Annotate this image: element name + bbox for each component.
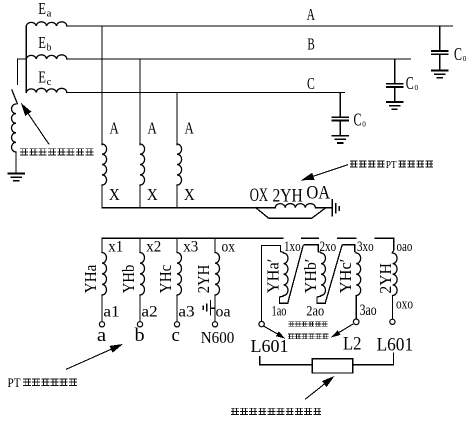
wire X bus: [102, 207, 275, 209]
svg-text:1ao: 1ao: [272, 304, 287, 320]
svg-text:L601: L601: [377, 335, 414, 355]
wire resistor bus: [260, 364, 394, 366]
svg-text:X: X: [184, 185, 195, 204]
svg-text:oxo: oxo: [396, 297, 413, 313]
svg-text:c: c: [47, 77, 52, 88]
wire lead oa: [214, 295, 216, 322]
wire oao corner: [392, 238, 393, 253]
wire L601 left drop: [259, 357, 261, 365]
annotation arrow damper: [306, 384, 325, 399]
winding Ea: [26, 22, 67, 26]
switch open: [12, 90, 18, 104]
terminal circle 1ao drop: [259, 321, 264, 326]
svg-text:x1: x1: [108, 239, 123, 256]
annotation arrow short zero seq: [313, 165, 347, 177]
svg-text:YHc: YHc: [156, 264, 175, 293]
PT primary winding 2: [140, 144, 145, 185]
svg-text:o: o: [415, 82, 419, 93]
wire oxo lead: [392, 296, 394, 319]
wire L601 right drop: [392, 353, 394, 365]
svg-text:1xo: 1xo: [284, 239, 301, 255]
wire to X bus 1: [101, 185, 103, 208]
wire neutral tap: [18, 59, 27, 85]
svg-text:b: b: [47, 43, 52, 54]
annotation arrow right to note: [339, 324, 353, 332]
svg-text:E: E: [38, 33, 46, 52]
wire delta diagonal 2: [325, 246, 342, 303]
svg-text:2YH: 2YH: [376, 263, 395, 294]
wire shelf 3xo: [342, 245, 357, 253]
wire tick x3: [176, 238, 178, 252]
wire secondary bus: [102, 237, 394, 239]
terminal circle oxo: [390, 319, 395, 324]
note arc coil out of service: [20, 149, 27, 155]
wire phase tap 2: [139, 59, 141, 145]
svg-text:PT: PT: [8, 376, 21, 390]
ground oa sideways: [203, 301, 215, 315]
terminal circle a3: [174, 322, 179, 327]
wire lead a3: [176, 295, 178, 322]
label 2xo: [319, 237, 337, 251]
PT primary winding 3: [177, 144, 182, 185]
winding YHa2: [284, 253, 289, 296]
note damper out of service: [231, 408, 238, 414]
arc suppression coil: [11, 104, 16, 152]
capacitor Co phase B: [394, 60, 396, 83]
wire phase A: [67, 25, 453, 27]
winding Eb: [26, 55, 67, 59]
svg-text:X: X: [147, 185, 158, 204]
svg-text:oao: oao: [397, 239, 413, 255]
wire phase B: [67, 58, 411, 60]
note connect to instrument line2: [288, 334, 293, 339]
capacitor Co phase A: [439, 27, 441, 50]
wire tick x2: [139, 238, 141, 252]
winding YHb2: [321, 253, 326, 296]
note connect to instrument line1: [289, 322, 294, 327]
svg-text:2YH: 2YH: [194, 265, 213, 294]
wire to X bus 3: [176, 185, 178, 208]
terminal circle oa: [212, 322, 217, 327]
ground arc coil: [8, 173, 24, 175]
svg-text:x3: x3: [183, 239, 198, 256]
svg-text:X: X: [109, 185, 120, 204]
wire tick ox: [214, 238, 216, 252]
winding YHc left: [177, 253, 182, 296]
svg-text:x2: x2: [146, 239, 161, 256]
wire phase tap 3: [176, 93, 178, 146]
wire delta diagonal 1: [288, 246, 303, 303]
winding YHc2: [356, 253, 361, 296]
svg-text:a3: a3: [178, 304, 195, 321]
svg-text:YHc′: YHc′: [336, 259, 355, 294]
svg-text:2ao: 2ao: [306, 304, 324, 320]
winding Ec: [26, 88, 67, 92]
terminal circle a1: [99, 322, 104, 327]
wire neutral bus: [25, 26, 27, 93]
wire 3ao lead: [355, 296, 357, 319]
wire phase C: [67, 92, 344, 94]
svg-text:OA: OA: [306, 183, 330, 204]
svg-text:3xo: 3xo: [357, 239, 374, 255]
ground zero seq sideways: [332, 200, 339, 216]
svg-text:oa: oa: [216, 304, 231, 321]
winding 2YH primary: [275, 204, 315, 208]
svg-text:YHa: YHa: [81, 264, 100, 293]
svg-text:L2: L2: [343, 334, 362, 355]
svg-text:a1: a1: [103, 304, 119, 321]
svg-text:C: C: [354, 110, 362, 130]
wire OA lead: [315, 207, 332, 209]
svg-text:3ao: 3ao: [360, 302, 377, 319]
svg-text:a: a: [47, 9, 52, 20]
label 3xo: [357, 237, 375, 251]
winding YHb left: [140, 253, 145, 296]
svg-text:C: C: [454, 44, 462, 64]
svg-text:N600: N600: [201, 328, 235, 347]
svg-text:YHb: YHb: [119, 265, 138, 294]
svg-text:a: a: [97, 326, 106, 346]
note short zero seq PT HV winding: [350, 161, 357, 167]
capacitor Co phase C: [339, 93, 341, 116]
svg-text:L601: L601: [251, 336, 289, 356]
svg-text:C: C: [307, 74, 315, 93]
svg-text:C: C: [406, 73, 414, 93]
wire coil to ground: [15, 152, 17, 174]
winding YHa left: [102, 253, 107, 296]
svg-text:B: B: [307, 35, 314, 54]
winding 2YH secondary: [393, 253, 398, 296]
terminal circle a2: [137, 322, 142, 327]
svg-text:E: E: [38, 68, 46, 87]
svg-text:ox: ox: [222, 239, 236, 256]
annotation arrow PT secondary: [66, 349, 111, 369]
svg-text:A: A: [307, 5, 316, 24]
terminal circle 3ao: [353, 319, 359, 325]
svg-text:YHa′: YHa′: [263, 259, 282, 294]
label 1xo: [284, 237, 301, 251]
wire 1ao hook: [279, 296, 287, 304]
svg-text:A: A: [110, 119, 120, 138]
svg-text:YHb′: YHb′: [301, 259, 320, 294]
annotation arrow arc coil: [28, 114, 49, 144]
svg-text:2xo: 2xo: [320, 239, 337, 255]
svg-text:E: E: [38, 0, 46, 18]
resistor damping box: [312, 359, 353, 373]
svg-text:A: A: [185, 119, 195, 138]
wire to X bus 2: [139, 185, 141, 208]
svg-text:o: o: [463, 53, 467, 64]
svg-text:a2: a2: [141, 304, 157, 321]
wire tick x1: [101, 238, 103, 252]
wire lead a2: [139, 295, 141, 322]
winding 2YH left: [215, 253, 220, 296]
svg-text:OX: OX: [250, 185, 268, 206]
shorting strap: [256, 208, 325, 218]
svg-text:PT: PT: [386, 159, 397, 171]
PT primary winding 1: [102, 144, 107, 185]
wire 2ao hook: [317, 296, 325, 304]
svg-text:A: A: [148, 119, 158, 138]
wire sub-bus 1xo: [261, 245, 283, 321]
svg-text:o: o: [362, 119, 366, 130]
wire shelf 2xo: [303, 245, 321, 253]
annotation arrow left to note: [264, 326, 278, 334]
wire phase tap 1: [101, 26, 103, 145]
svg-text:b: b: [135, 326, 145, 346]
svg-text:c: c: [172, 326, 180, 346]
wire lead a1: [101, 295, 103, 322]
